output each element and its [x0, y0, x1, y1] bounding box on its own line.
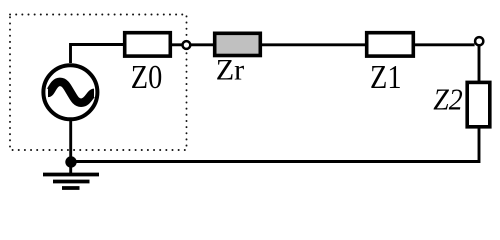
svg-text:Z0: Z0 — [131, 59, 163, 96]
wire from source top to Z0 — [71, 45, 124, 64]
wire source bottom to ground — [69, 121, 72, 175]
wire Z1 to right node — [414, 43, 475, 46]
resistor Z1 — [367, 33, 414, 56]
port node (open circle) — [183, 41, 191, 49]
ground bar 1 — [43, 173, 99, 177]
resistor Z2 (vertical) — [467, 82, 490, 126]
ground bar 2 — [53, 180, 90, 184]
AC source V1 circle — [43, 65, 97, 119]
resistor Zr (matched load, gray) — [215, 33, 261, 55]
AC source sine wave — [48, 82, 94, 103]
wire node to Zr — [191, 43, 214, 46]
svg-text:Zr: Zr — [216, 54, 245, 87]
resistor Z0 — [125, 33, 171, 56]
wire Z0 to port node — [171, 43, 182, 46]
dashed source network boundary — [10, 15, 187, 151]
wire node down to Z2 — [478, 46, 481, 83]
svg-text:Z1: Z1 — [370, 59, 402, 96]
svg-text:Z2: Z2 — [433, 82, 463, 117]
junction dot — [65, 156, 76, 167]
wire Zr to Z1 — [261, 43, 366, 46]
wire Z2 down and bottom return wire — [70, 128, 479, 162]
right corner node (open circle) — [475, 37, 483, 45]
ground bar 3 — [62, 186, 80, 190]
